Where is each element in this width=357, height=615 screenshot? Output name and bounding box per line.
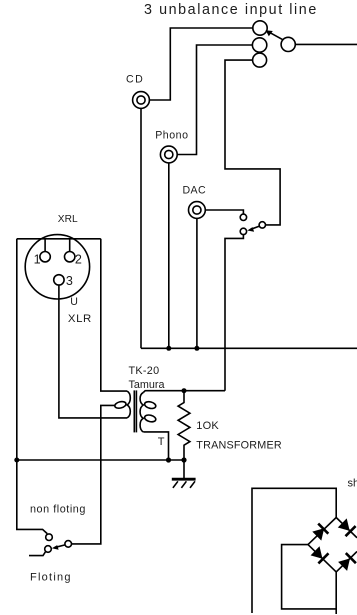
DAC switch wiper arrow (247, 226, 259, 232)
bridge top wire (252, 488, 336, 613)
svg-text:Tamura: Tamura (129, 379, 165, 391)
svg-text:Floting: Floting (30, 572, 72, 584)
bridge left corner wire (282, 545, 337, 609)
svg-text:XLR: XLR (68, 313, 92, 325)
junction secondary/bus (166, 457, 171, 462)
ground hatch 2 (181, 481, 186, 488)
svg-text:XRL: XRL (58, 214, 78, 225)
XLR pin 3 (54, 275, 64, 285)
transformer secondary hairpin loop 1 (144, 401, 157, 410)
resistor 10K (178, 391, 190, 460)
connector CD (133, 92, 150, 109)
ground hatch 1 (173, 481, 178, 488)
floating switch bottom contact (45, 546, 52, 553)
transformer secondary winding (140, 393, 143, 432)
transformer secondary hairpin loop 2 (144, 414, 157, 423)
bridge arm bottom-right (336, 552, 357, 572)
wire Phono ground drop (168, 163, 170, 348)
svg-text:1: 1 (34, 253, 41, 267)
wire DAC ground drop (196, 218, 198, 348)
floating switch top contact (46, 534, 53, 541)
transformer primary winding (127, 391, 130, 418)
bridge arm top-right (336, 518, 357, 538)
svg-text:TK-20: TK-20 (129, 365, 160, 377)
rotary selector contact 3 (253, 53, 267, 67)
ground bar (172, 478, 196, 481)
svg-text:TRANSFORMER: TRANSFORMER (196, 440, 282, 452)
rotary selector pole (281, 37, 295, 51)
svg-text:3 unbalance input line: 3 unbalance input line (144, 2, 318, 18)
wire DAC switch bottom contact to transformer secondary (225, 235, 243, 391)
pin 2 stub (69, 239, 71, 252)
svg-text:T: T (158, 436, 165, 448)
floating switch wiper arrow (52, 545, 65, 550)
diode D3 bottom-left (311, 546, 329, 563)
input ground bus (141, 347, 357, 349)
wire pin 3 to transformer primary bottom (59, 285, 127, 418)
svg-text:Phono: Phono (155, 130, 188, 142)
diode D4 bottom-right (338, 553, 356, 571)
DAC switch top contact (240, 214, 246, 220)
bridge arm top-left (308, 518, 336, 545)
svg-text:CD: CD (126, 74, 144, 86)
connector DAC (189, 202, 206, 219)
junction Phono/bus (166, 346, 171, 351)
XLR pin 2 (65, 252, 75, 262)
pin 1 stub (44, 239, 46, 252)
junction DAC/bus (194, 346, 199, 351)
svg-text:sh: sh (348, 477, 357, 489)
junction left/bus (14, 458, 19, 463)
floating switch common contact (65, 541, 72, 548)
wire CD ground drop (140, 108, 142, 348)
svg-text:DAC: DAC (183, 185, 207, 197)
transformer primary tap wire to floating switch (72, 405, 116, 544)
ground stem (183, 460, 185, 478)
wire left ground to floating switch top contact (17, 460, 47, 534)
svg-text:3: 3 (66, 274, 73, 288)
wire pole to right edge (295, 43, 357, 45)
ground hatch 3 (190, 481, 195, 488)
svg-text:1OK: 1OK (196, 420, 219, 432)
wire contact 3 to DAC switch common (225, 60, 280, 225)
svg-text:U: U (70, 296, 78, 308)
diode D1 top-left (312, 524, 328, 541)
svg-text:non floting: non floting (30, 503, 86, 515)
wire pin 2 to transformer primary top (101, 239, 127, 391)
XLR left ground wire (16, 239, 18, 460)
junction resistor top (182, 388, 187, 393)
XLR top wire (17, 238, 101, 240)
rotary selector wiper arrow (266, 30, 283, 40)
XLR shell circle (25, 235, 89, 299)
XLR pin 1 (40, 252, 50, 262)
DAC switch bottom contact (240, 228, 246, 234)
connector Phono (160, 146, 177, 163)
wire DAC to switch top contact (205, 210, 243, 214)
bridge arm bottom-left (308, 545, 336, 572)
wire CD to contact 1 (149, 28, 252, 100)
transformer T1 core (134, 390, 136, 432)
svg-text:2: 2 (75, 253, 82, 267)
diode D2 top-right (338, 518, 356, 536)
transformer secondary top lead (143, 391, 225, 393)
rotary selector contact 1 (253, 21, 267, 35)
transformer secondary bottom lead (143, 432, 168, 460)
rotary selector contact 2 (252, 38, 266, 52)
XLR ground bus (17, 459, 184, 461)
bridge bottom stub (335, 572, 337, 614)
wire Phono to contact 2 (177, 45, 252, 155)
junction resistor/bus (181, 457, 186, 462)
DAC switch common contact (259, 222, 265, 228)
floating switch open stub (29, 552, 46, 556)
transformer primary hairpin loop (114, 401, 127, 410)
